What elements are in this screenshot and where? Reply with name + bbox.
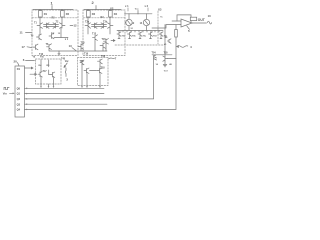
svg-text:R4: R4: [114, 12, 118, 16]
svg-text:17: 17: [22, 45, 26, 49]
svg-text:R3: R3: [92, 12, 96, 16]
svg-text:R4: R4: [39, 64, 43, 67]
svg-text:Tc: Tc: [160, 17, 163, 19]
svg-text:T4: T4: [33, 55, 36, 58]
svg-text:T18: T18: [101, 66, 106, 69]
svg-text:11: 11: [20, 31, 24, 35]
svg-text:T04: T04: [152, 51, 157, 54]
svg-text:13: 13: [69, 44, 73, 48]
svg-text:Vcc: Vcc: [135, 9, 140, 11]
svg-text:Q4: Q4: [17, 108, 21, 112]
svg-text:T6b: T6b: [80, 60, 85, 63]
svg-text:x 2: x 2: [145, 4, 149, 8]
svg-text:T05: T05: [164, 51, 169, 54]
svg-text:T15: T15: [81, 41, 86, 44]
svg-text:16: 16: [156, 64, 159, 66]
svg-text:T08: T08: [101, 55, 106, 58]
svg-text:x 1: x 1: [65, 38, 69, 41]
svg-text:T2a: T2a: [85, 21, 90, 24]
svg-text:12: 12: [74, 24, 78, 28]
svg-text:Q3: Q3: [17, 102, 21, 106]
svg-text:Q2: Q2: [17, 97, 21, 101]
svg-text:2: 2: [92, 0, 95, 5]
svg-text:X2: X2: [110, 7, 114, 11]
svg-text:48: 48: [169, 63, 172, 66]
svg-text:T2: T2: [56, 21, 59, 24]
svg-text:T16: T16: [39, 53, 44, 56]
svg-text:12: 12: [58, 33, 61, 35]
svg-text:T17: T17: [43, 70, 48, 73]
svg-text:T2b: T2b: [103, 21, 108, 24]
svg-text:T9c: T9c: [143, 36, 147, 38]
svg-text:6: 6: [23, 58, 25, 62]
svg-text:3: 3: [66, 77, 68, 81]
svg-text:20: 20: [14, 59, 18, 63]
svg-text:Q1: Q1: [17, 92, 21, 96]
svg-text:14: 14: [140, 22, 143, 25]
svg-text:T15: T15: [102, 38, 107, 41]
svg-text:Vref: Vref: [164, 70, 168, 72]
svg-text:Var: Var: [65, 60, 69, 63]
svg-text:OUT: OUT: [198, 18, 205, 22]
svg-text:D1: D1: [17, 67, 21, 71]
svg-text:R2: R2: [66, 12, 70, 16]
svg-text:4: 4: [190, 45, 192, 49]
svg-text:12: 12: [132, 22, 135, 25]
svg-text:R8: R8: [165, 37, 169, 39]
svg-text:R5: R5: [47, 65, 51, 67]
svg-text:41: 41: [164, 43, 167, 46]
svg-text:Vin: Vin: [3, 92, 7, 96]
svg-text:T9b: T9b: [132, 36, 136, 38]
svg-text:Q0: Q0: [17, 86, 21, 90]
svg-text:91: 91: [131, 28, 134, 30]
svg-text:R3: R3: [52, 17, 56, 20]
svg-text:T9d: T9d: [153, 36, 157, 38]
svg-text:T16: T16: [84, 53, 89, 56]
svg-text:7: 7: [115, 57, 117, 61]
svg-text:T05: T05: [40, 56, 45, 58]
svg-text:X3: X3: [158, 8, 162, 12]
svg-text:R1: R1: [44, 12, 48, 16]
svg-text:T13: T13: [92, 33, 97, 36]
svg-text:x 1: x 1: [125, 4, 129, 8]
svg-text:T5: T5: [31, 34, 34, 37]
svg-text:T6: T6: [46, 43, 49, 46]
svg-text:1: 1: [51, 1, 54, 6]
svg-text:T1: T1: [34, 21, 37, 24]
svg-text:10: 10: [208, 14, 212, 18]
